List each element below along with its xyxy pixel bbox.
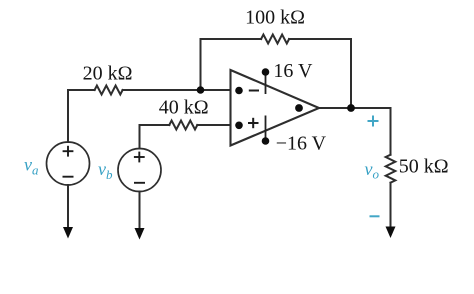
vb minus sign — [134, 182, 145, 184]
wire load branch bottom — [390, 183, 392, 228]
resistor R1 20 kOhm zigzag — [95, 86, 123, 95]
op-amp positive supply pin — [265, 72, 267, 94]
op-amp noninverting plus sign — [248, 118, 259, 128]
label minus polarity of vo — [370, 215, 380, 217]
voltage source va — [47, 142, 90, 185]
svg-text:100 kΩ: 100 kΩ — [245, 7, 305, 29]
va minus sign — [63, 176, 74, 178]
wire feedback right vertical — [350, 39, 352, 108]
node output junction dot — [347, 104, 355, 112]
node feedback tap junction dot — [197, 86, 205, 94]
svg-text:−16 V: −16 V — [276, 133, 327, 155]
wire va bottom lead — [67, 185, 69, 228]
wire vb top lead to 40k input wire — [140, 125, 170, 149]
wire top rail left — [201, 38, 262, 40]
wire output — [319, 107, 391, 109]
op-amp inverting minus sign — [249, 90, 259, 92]
op-amp positive supply dot — [262, 68, 270, 76]
svg-text:40 kΩ: 40 kΩ — [159, 97, 209, 119]
svg-text:16 V: 16 V — [273, 60, 313, 82]
svg-text:20 kΩ: 20 kΩ — [83, 63, 133, 85]
svg-text:vo: vo — [365, 159, 380, 182]
wire top rail right — [289, 38, 351, 40]
voltage source vb — [118, 149, 161, 192]
svg-text:vb: vb — [98, 159, 113, 182]
wire va top lead to 20k input wire — [68, 90, 95, 142]
svg-text:va: va — [24, 155, 39, 178]
wire 20k to inverting input — [123, 89, 231, 91]
op-amp output dot — [295, 104, 303, 112]
svg-text:50 kΩ: 50 kΩ — [399, 156, 449, 178]
resistor R3 40 kOhm zigzag — [169, 121, 197, 130]
op-amp noninverting input dot — [235, 122, 243, 130]
wire load branch top — [390, 108, 392, 155]
resistor R4 50 kOhm zigzag — [386, 155, 396, 183]
va plus sign — [63, 146, 74, 157]
wire vb bottom lead — [139, 192, 141, 230]
op-amp negative supply dot — [262, 137, 270, 145]
resistor R2 100 kOhm zigzag — [261, 35, 289, 44]
wire feedback left vertical — [200, 39, 202, 90]
wire 40k to noninverting input — [197, 124, 230, 126]
ground arrow under va — [63, 227, 73, 239]
op-amp U1 triangle — [231, 70, 320, 146]
ground arrow under vb — [135, 228, 145, 240]
vb plus sign — [134, 152, 145, 163]
op-amp inverting input dot — [235, 87, 243, 95]
label plus polarity of vo — [368, 116, 379, 127]
ground arrow under 50k load — [386, 227, 396, 239]
op-amp negative supply pin — [265, 116, 267, 142]
